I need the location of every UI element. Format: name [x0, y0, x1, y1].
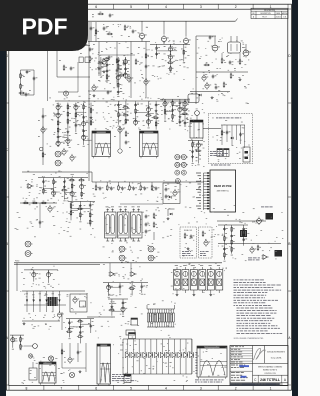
cluster B6 below bus — [38, 178, 88, 203]
svg-text:2/14/12: 2/14/12 — [276, 17, 281, 19]
relay K1 — [92, 131, 111, 158]
svg-text:2: 2 — [235, 5, 237, 9]
cluster E9 left edge — [10, 335, 37, 350]
svg-text:5: 5 — [130, 387, 132, 391]
box E1 subcircuit — [70, 294, 87, 312]
svg-text:NOTE: UNLESS OTHERWISE NOTED: NOTE: UNLESS OTHERWISE NOTED — [234, 338, 264, 340]
wire bold bus — [14, 261, 222, 265]
wire rail x89 — [88, 22, 90, 181]
resistor array RN1 — [147, 305, 175, 327]
transistor Q1 — [139, 31, 146, 40]
connector J1 circles — [55, 151, 62, 166]
svg-text:4: 4 — [165, 387, 167, 391]
svg-text:2: 2 — [235, 387, 237, 391]
row B7 below bus — [95, 182, 159, 191]
REAR IO PCB box — [210, 170, 236, 212]
connector J4 circles — [119, 246, 126, 261]
diode comb array — [22, 291, 85, 327]
transistor Q5 — [70, 154, 76, 162]
transistor Q3 — [183, 36, 190, 45]
svg-text:4: 4 — [165, 5, 167, 9]
wire mid bus left — [22, 171, 92, 173]
wire mid bus right — [92, 181, 204, 183]
relay K5 — [197, 346, 227, 379]
cluster D3 below opamps — [103, 283, 148, 298]
cluster E7 top — [108, 299, 128, 317]
svg-text:PDF: PDF — [22, 13, 68, 39]
PDF badge — [0, 0, 88, 51]
svg-text:246 TCTRLL: 246 TCTRLL — [260, 378, 280, 382]
loop branch A4 — [20, 70, 38, 95]
caption K4 — [112, 374, 136, 381]
preamp cluster B3 — [160, 99, 190, 126]
revision table — [251, 8, 288, 19]
cluster C2 — [68, 201, 95, 226]
wire Q1 stem — [142, 21, 186, 44]
vertical caption right of ladder — [195, 352, 197, 374]
wire stub x62 — [61, 312, 63, 330]
connector J3 circles — [181, 155, 188, 176]
svg-text:DESCRIPTION: DESCRIPTION — [260, 13, 270, 15]
svg-text:REAR I/O PCB: REAR I/O PCB — [214, 184, 232, 188]
svg-text:B: B — [6, 242, 8, 246]
resistor col R30 — [153, 213, 157, 240]
branch B1a — [38, 108, 47, 165]
transistor Q4 — [62, 148, 68, 156]
svg-text:RV: RV — [252, 13, 254, 15]
wire rail y101 — [55, 100, 190, 102]
relay K3 — [39, 362, 56, 385]
viewer band left — [0, 0, 6, 396]
cluster B5 left of pins — [188, 140, 203, 165]
transistor Q20 — [57, 311, 63, 319]
svg-text:7: 7 — [60, 387, 62, 391]
amp stage A1 — [88, 22, 150, 98]
series chain C1 — [20, 201, 57, 228]
tube V3 — [131, 207, 143, 242]
connector J2 circles — [175, 155, 182, 184]
connector J5 circles — [148, 246, 155, 261]
svg-text:1: 1 — [270, 387, 272, 391]
wire mid bus step — [91, 172, 93, 182]
reference designator speckle — [15, 24, 284, 384]
resistor block RN2 — [48, 297, 58, 306]
cap bank C3 — [145, 214, 150, 233]
preamp cluster B2 — [116, 101, 160, 129]
part B0 — [19, 91, 30, 97]
svg-text:3: 3 — [200, 387, 202, 391]
dashed option box — [203, 114, 253, 166]
wire bus y317 — [87, 316, 115, 318]
small box E5 — [131, 318, 138, 325]
lamp DS2 — [69, 372, 74, 377]
power cluster C4 — [217, 207, 282, 262]
input stage A3 — [188, 35, 251, 104]
viewer band right — [292, 0, 298, 396]
corner hook D5 — [167, 209, 175, 220]
svg-text:RUMBLE 60 REV D: RUMBLE 60 REV D — [263, 370, 278, 372]
svg-text:CONTROL PCB: CONTROL PCB — [264, 373, 275, 375]
rear io pin rows — [196, 172, 210, 210]
dashed box D2 — [199, 227, 213, 258]
title block — [230, 346, 288, 386]
opamp U3 — [27, 184, 34, 189]
wire net E11 — [61, 343, 86, 373]
connector J6 circles — [25, 241, 32, 256]
svg-text:B: B — [288, 242, 290, 246]
svg-text:5: 5 — [130, 5, 132, 9]
lamp DS1 — [48, 356, 53, 361]
relay K4 — [97, 344, 111, 386]
small box E8 — [124, 375, 131, 383]
cluster E3 — [66, 319, 94, 344]
lamp DS3 — [28, 354, 32, 358]
svg-text:6: 6 — [95, 5, 97, 9]
small box E4 — [29, 362, 37, 380]
chain B8 between relays — [114, 126, 131, 153]
small box E6 — [126, 330, 135, 335]
notes text block — [234, 280, 283, 340]
cluster D4 small — [24, 270, 58, 285]
svg-text:3: 3 — [200, 5, 202, 9]
wire top bus — [40, 19, 238, 22]
preamp cluster B1 — [56, 103, 94, 147]
box B9 subcircuit — [120, 183, 180, 204]
svg-text:REVISIONS: REVISIONS — [264, 10, 276, 12]
small box E10 — [129, 333, 136, 339]
transistor Q2 — [161, 34, 168, 43]
svg-text:1: 1 — [270, 5, 272, 9]
diode ladder CR array — [120, 339, 194, 374]
wire bus drop left — [16, 263, 18, 291]
tube V1 — [105, 207, 117, 242]
filter cluster A2 — [150, 44, 190, 72]
svg-text:8: 8 — [25, 387, 27, 391]
output IC row — [174, 265, 223, 296]
relay K2 — [140, 131, 159, 158]
branch under badge — [48, 43, 91, 101]
small parts row top — [92, 12, 113, 18]
svg-text:6: 6 — [95, 387, 97, 391]
svg-text:PILOT: PILOT — [262, 17, 267, 19]
caption K5 — [195, 380, 224, 383]
opamp U4 — [109, 263, 137, 276]
tube V2 — [118, 207, 130, 242]
dashed box D1 — [180, 227, 197, 258]
IC U2 box — [190, 111, 203, 138]
svg-text:(SEE SHEET 2): (SEE SHEET 2) — [217, 191, 229, 193]
